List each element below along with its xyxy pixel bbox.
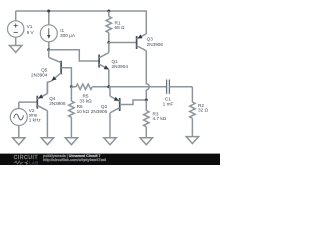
node dot top wire at I1 bbox=[47, 10, 50, 13]
svg-text:4.7 kΩ: 4.7 kΩ bbox=[153, 116, 167, 121]
wire node to Q3 base bbox=[109, 42, 137, 44]
transistor Q4 2N3906 bbox=[37, 82, 66, 138]
ground under R3 bbox=[140, 138, 152, 145]
wire I1 node to Q1 base bbox=[49, 50, 99, 61]
svg-text:LAB: LAB bbox=[29, 160, 39, 165]
svg-text:2N3904: 2N3904 bbox=[112, 64, 129, 69]
wire rail mid to C1 bbox=[109, 86, 167, 88]
ground under Q4 bbox=[41, 138, 53, 145]
svg-text:http://circuitlab.com/c/9pky0a: http://circuitlab.com/c/9pky0aw37za8 bbox=[43, 158, 106, 162]
node dot Q3 collector / Q2 base / R3 bbox=[145, 99, 148, 102]
svg-text:33 kΩ: 33 kΩ bbox=[79, 99, 92, 104]
ground under R2 bbox=[186, 137, 198, 144]
transistor Q1 2N3904 bbox=[99, 43, 128, 87]
voltage source V2 sine bbox=[10, 102, 41, 138]
Q5 base wire to mid rail bbox=[61, 68, 71, 87]
ground under R6 bbox=[65, 138, 77, 145]
node dot rail mid (Q1/Q2 emitters) bbox=[107, 85, 110, 88]
transistor Q3 2N3906 bbox=[137, 11, 164, 90]
svg-text:2N3906: 2N3906 bbox=[147, 42, 164, 47]
resistor R5 33k horizontal bbox=[71, 84, 108, 103]
node dot I1 bottom bbox=[47, 48, 50, 51]
svg-text:2N3906: 2N3906 bbox=[49, 101, 66, 106]
resistor R6 10k bbox=[69, 87, 90, 138]
current source I1 bbox=[40, 11, 76, 50]
Q2 base wire bbox=[120, 100, 147, 105]
capacitor C1 bbox=[163, 80, 193, 107]
transistor Q2 2N3906 (mirrored) bbox=[91, 87, 120, 138]
svg-text:2N3906: 2N3906 bbox=[91, 109, 108, 114]
svg-text:2N3904: 2N3904 bbox=[31, 72, 48, 77]
ground under V2 bbox=[13, 138, 25, 145]
svg-text:V1: V1 bbox=[27, 24, 33, 29]
node dot top wire at R1 bbox=[107, 10, 110, 13]
Q3 collector below hop bbox=[145, 90, 147, 100]
transistor Q5 2N3904 (mirrored) bbox=[31, 50, 61, 94]
ground under V1 bbox=[10, 46, 22, 53]
voltage source V1 bbox=[8, 11, 35, 46]
svg-text:1 kHz: 1 kHz bbox=[29, 118, 42, 123]
resistor R2 32 ohm bbox=[190, 87, 209, 137]
svg-text:Q3: Q3 bbox=[147, 37, 154, 42]
wire top rail bbox=[16, 10, 147, 12]
svg-text:32 Ω: 32 Ω bbox=[198, 107, 209, 112]
resistor R3 4.7k bbox=[144, 100, 167, 138]
node dot R1 bottom / Q1 collector bbox=[107, 41, 110, 44]
footer bar bbox=[0, 154, 220, 166]
svg-text:68 Ω: 68 Ω bbox=[115, 25, 126, 30]
svg-text:300 µA: 300 µA bbox=[60, 33, 76, 38]
node dot rail left (R5/R6/Q5) bbox=[70, 85, 73, 88]
svg-text:9 V: 9 V bbox=[27, 30, 35, 35]
svg-text:10 kΩ: 10 kΩ bbox=[77, 109, 90, 114]
ground under Q2 bbox=[104, 138, 116, 145]
svg-text:1 mF: 1 mF bbox=[163, 102, 174, 107]
resistor R1 bbox=[106, 11, 125, 43]
